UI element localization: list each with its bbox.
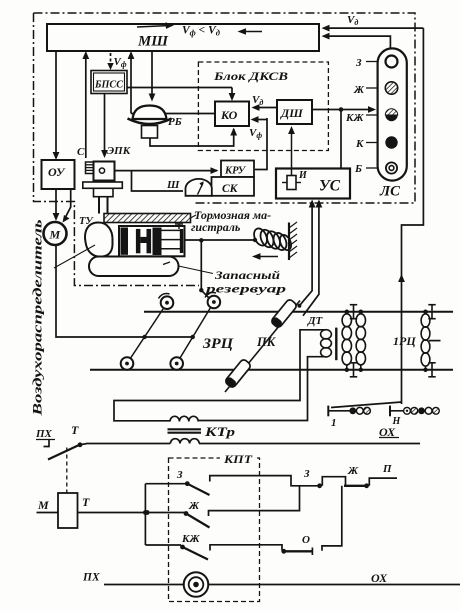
svg-text:Запасный: Запасный [214, 268, 281, 282]
svg-text:Б: Б [354, 163, 362, 175]
svg-text:МШ: МШ [137, 34, 169, 50]
svg-text:М: М [49, 228, 61, 242]
svg-text:гистраль: гистраль [191, 220, 241, 234]
svg-text:Ш: Ш [166, 179, 180, 191]
svg-text:З: З [355, 57, 362, 69]
svg-text:ДТ: ДТ [307, 315, 324, 327]
svg-text:И: И [298, 170, 308, 181]
svg-text:О: О [302, 534, 310, 546]
svg-text:Vф: Vф [114, 56, 127, 69]
svg-text:ОХ: ОХ [379, 425, 396, 439]
svg-text:Т: Т [71, 423, 79, 437]
svg-text:Блок ДКСВ: Блок ДКСВ [213, 69, 288, 83]
svg-text:БПСС: БПСС [94, 80, 123, 91]
svg-text:ПХ: ПХ [82, 572, 100, 584]
svg-text:ПК: ПК [256, 335, 277, 349]
svg-text:КТр: КТр [204, 425, 235, 439]
svg-text:КПТ: КПТ [223, 452, 253, 466]
svg-text:Vф < Vд: Vф < Vд [182, 25, 221, 38]
svg-text:К: К [355, 138, 364, 150]
svg-text:КО: КО [220, 108, 238, 122]
svg-text:Т: Т [82, 495, 90, 509]
svg-text:ПХ: ПХ [35, 428, 53, 440]
svg-text:ОУ: ОУ [48, 165, 66, 179]
svg-text:УС: УС [319, 178, 340, 195]
svg-text:С: С [77, 146, 85, 158]
svg-text:З: З [303, 468, 310, 480]
svg-text:Vд: Vд [347, 14, 358, 27]
svg-text:Vд: Vд [252, 94, 263, 107]
svg-text:РБ: РБ [168, 116, 182, 128]
svg-text:резервуар: резервуар [204, 282, 286, 296]
svg-text:Ж: Ж [353, 84, 365, 96]
svg-text:М: М [37, 498, 49, 512]
svg-text:П: П [382, 463, 392, 475]
svg-text:1: 1 [331, 417, 337, 429]
svg-text:ЭПК: ЭПК [107, 145, 131, 157]
svg-text:СК: СК [222, 183, 239, 195]
svg-text:Воздухораспределитель: Воздухораспределитель [30, 219, 45, 417]
svg-text:ОХ: ОХ [371, 571, 388, 585]
svg-text:З: З [176, 469, 183, 481]
svg-text:ТУ: ТУ [79, 216, 94, 227]
svg-text:Ж: Ж [347, 465, 359, 477]
svg-text:ЗРЦ: ЗРЦ [202, 336, 234, 352]
svg-text:КРУ: КРУ [224, 166, 247, 177]
svg-text:КЖ: КЖ [181, 533, 200, 545]
svg-text:ЛС: ЛС [379, 184, 401, 200]
svg-text:Vф: Vф [249, 127, 262, 140]
svg-text:1РЦ: 1РЦ [393, 334, 416, 348]
svg-text:Ж: Ж [188, 500, 200, 512]
svg-text:ДШ: ДШ [280, 106, 303, 120]
svg-text:КЖ: КЖ [345, 112, 364, 124]
